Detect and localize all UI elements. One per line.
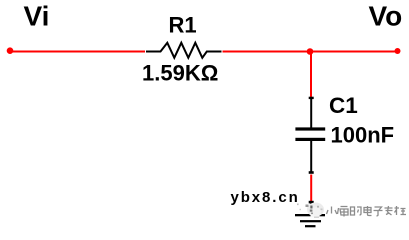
海 [338, 207, 349, 217]
svg-text:100nF: 100nF [331, 123, 395, 148]
junction node [307, 48, 314, 55]
wire C1 to ground [310, 175, 312, 202]
ground [295, 201, 325, 228]
的 [351, 207, 362, 215]
小 [327, 207, 337, 215]
专 [385, 206, 393, 215]
svg-text:Vi: Vi [24, 1, 50, 32]
wire junction to C1 [310, 52, 312, 98]
svg-text:C1: C1 [329, 93, 358, 118]
svg-text:1.59KΩ: 1.59KΩ [142, 61, 218, 86]
栏 [395, 206, 407, 215]
capacitor C1 [295, 97, 325, 174]
wire Vi to R1 [10, 51, 145, 53]
svg-text:R1: R1 [169, 13, 197, 38]
svg-text:ybx8.cn: ybx8.cn [231, 189, 300, 206]
电 [364, 206, 372, 216]
svg-text:Vo: Vo [369, 1, 403, 32]
pin dot Vo [395, 48, 401, 54]
子 [374, 207, 383, 216]
resistor R1 [146, 43, 222, 58]
pin dot Vi [7, 47, 14, 54]
wire R1 to Vo [223, 51, 398, 53]
